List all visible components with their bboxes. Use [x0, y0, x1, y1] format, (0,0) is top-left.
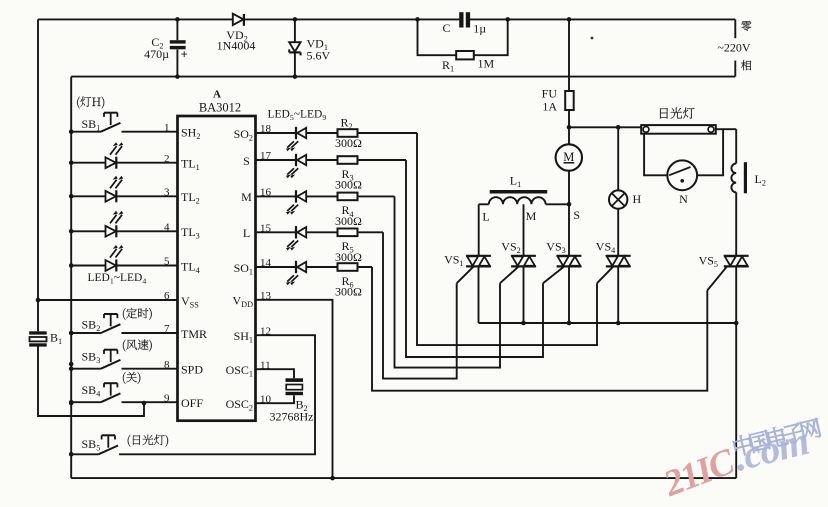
svg-text:14: 14 — [260, 257, 272, 269]
svg-text:~220V: ~220V — [717, 41, 750, 55]
svg-text:OSC2: OSC2 — [226, 397, 253, 413]
svg-text:300Ω: 300Ω — [335, 178, 362, 192]
svg-text:300Ω: 300Ω — [335, 136, 362, 150]
svg-text:18: 18 — [260, 123, 272, 135]
svg-text:C: C — [442, 21, 450, 35]
svg-text:FU: FU — [542, 87, 558, 101]
svg-text:M: M — [241, 190, 252, 204]
svg-text:32768Hz: 32768Hz — [270, 410, 314, 424]
svg-text:BA3012: BA3012 — [199, 101, 241, 115]
svg-text:M: M — [563, 150, 574, 164]
svg-text:S: S — [243, 154, 250, 168]
svg-text:SPD: SPD — [181, 363, 203, 377]
svg-text:OSC1: OSC1 — [226, 363, 253, 379]
svg-text:OFF: OFF — [181, 396, 203, 410]
svg-text:470µ: 470µ — [144, 47, 169, 61]
svg-text:300Ω: 300Ω — [335, 250, 362, 264]
svg-text:1A: 1A — [542, 100, 557, 114]
svg-text:300Ω: 300Ω — [335, 214, 362, 228]
svg-text:1N4004: 1N4004 — [217, 39, 256, 53]
svg-text:M: M — [526, 209, 537, 223]
svg-text:TMR: TMR — [181, 327, 207, 341]
svg-text:16: 16 — [260, 187, 272, 199]
svg-text:A: A — [213, 89, 221, 101]
svg-text:LED5~LED9: LED5~LED9 — [268, 109, 327, 123]
svg-text:300Ω: 300Ω — [335, 285, 362, 299]
svg-text:5.6V: 5.6V — [307, 49, 331, 63]
svg-text:1µ: 1µ — [473, 22, 486, 36]
svg-text:H: H — [633, 192, 642, 206]
svg-text:S: S — [573, 208, 580, 222]
svg-text:1M: 1M — [478, 57, 495, 71]
svg-text:L: L — [482, 210, 489, 224]
svg-text:L: L — [243, 226, 250, 240]
svg-text:N: N — [679, 192, 688, 206]
svg-text:LED1~LED4: LED1~LED4 — [88, 272, 147, 286]
svg-text:17: 17 — [260, 150, 272, 162]
svg-text:15: 15 — [260, 223, 272, 235]
svg-text:+: + — [181, 47, 188, 61]
